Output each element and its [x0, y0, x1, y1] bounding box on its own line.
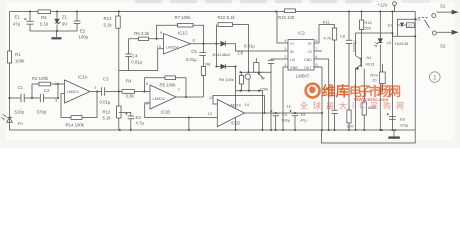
svg-text:0.01μ: 0.01μ [186, 57, 197, 62]
svg-text:E5: E5 [301, 112, 306, 117]
svg-text:13: 13 [209, 95, 214, 100]
svg-text:R5 100k: R5 100k [160, 83, 177, 88]
svg-text:4.7μ: 4.7μ [136, 121, 145, 126]
svg-text:维库: 维库 [322, 83, 350, 99]
svg-text:R9 100k: R9 100k [219, 77, 234, 82]
svg-text:E1: E1 [15, 15, 21, 20]
svg-text:14: 14 [245, 102, 250, 107]
svg-text:D3: D3 [388, 23, 393, 28]
svg-text:E3: E3 [136, 115, 142, 120]
svg-text:4700μ: 4700μ [352, 40, 357, 52]
svg-text:C1: C1 [18, 85, 24, 90]
svg-text:LIV: LIV [290, 58, 296, 62]
svg-text:RI: RI [308, 42, 312, 46]
svg-text:3.3k: 3.3k [126, 94, 135, 99]
svg-text:C6: C6 [238, 51, 244, 56]
svg-text:5: 5 [316, 63, 318, 67]
svg-text:LM567: LM567 [296, 74, 310, 79]
svg-text:OUT: OUT [304, 66, 312, 70]
svg-text:5.1k: 5.1k [40, 22, 49, 27]
svg-text:2: 2 [285, 55, 287, 59]
svg-text:220k: 220k [260, 86, 269, 91]
svg-text:IC1C: IC1C [178, 31, 188, 36]
svg-text:9013: 9013 [366, 62, 376, 67]
svg-text:220μ: 220μ [400, 123, 409, 128]
svg-text:R16: R16 [365, 20, 372, 25]
svg-text:C4: C4 [132, 53, 138, 58]
svg-text:R4: R4 [126, 79, 132, 84]
svg-text:0.01μ: 0.01μ [100, 100, 111, 105]
svg-text:R10 5.1k: R10 5.1k [218, 15, 236, 20]
svg-text:R12: R12 [103, 110, 111, 115]
svg-text:DL: DL [416, 17, 421, 21]
svg-text:E4: E4 [282, 112, 288, 117]
svg-text:+12V: +12V [378, 2, 388, 7]
svg-text:S1: S1 [440, 4, 446, 9]
svg-text:C5: C5 [191, 49, 197, 54]
svg-text:R2 100k: R2 100k [32, 76, 49, 81]
svg-text:N1: N1 [367, 55, 373, 60]
svg-text:1: 1 [285, 63, 287, 67]
svg-text:R8: R8 [205, 61, 211, 66]
svg-text:E8: E8 [400, 117, 405, 122]
svg-text:R11: R11 [323, 20, 331, 25]
svg-text:GND: GND [304, 58, 312, 62]
svg-text:370p: 370p [37, 110, 47, 115]
svg-text:LM324: LM324 [153, 96, 166, 101]
svg-text:C8: C8 [340, 34, 345, 39]
svg-text:LM324: LM324 [229, 103, 242, 108]
svg-text:100μ: 100μ [79, 35, 89, 40]
svg-text:7: 7 [316, 47, 318, 51]
svg-text:R15 100: R15 100 [278, 15, 295, 20]
svg-text:6: 6 [316, 55, 318, 59]
svg-text:4: 4 [285, 39, 287, 43]
svg-text:510p: 510p [15, 110, 25, 115]
svg-text:R14 100k: R14 100k [66, 123, 85, 128]
svg-text:W: W [261, 77, 265, 81]
svg-text:1N4148: 1N4148 [395, 41, 409, 46]
svg-text:S2: S2 [440, 44, 446, 49]
svg-text:IC1A: IC1A [78, 75, 88, 80]
svg-text:10: 10 [157, 44, 162, 49]
svg-text:4.7k: 4.7k [324, 36, 332, 41]
svg-text:3: 3 [285, 47, 287, 51]
svg-text:C2: C2 [44, 88, 50, 93]
svg-text:9V: 9V [62, 22, 67, 27]
svg-text:OI: OI [308, 50, 312, 54]
svg-text:47μ: 47μ [300, 118, 307, 123]
svg-text:1k: 1k [287, 104, 291, 109]
svg-text:Z1: Z1 [62, 15, 68, 20]
svg-text:100μ: 100μ [281, 118, 290, 123]
svg-text:PH: PH [18, 121, 24, 126]
svg-text:820: 820 [347, 124, 354, 129]
svg-text:LM324: LM324 [67, 89, 80, 94]
svg-text:E2: E2 [80, 29, 86, 34]
svg-text:12V: 12V [407, 24, 412, 28]
svg-text:LM324: LM324 [166, 45, 179, 50]
svg-text:100k: 100k [15, 59, 25, 64]
svg-text:R1: R1 [15, 52, 21, 57]
svg-text:C3: C3 [103, 77, 109, 82]
svg-text:R7 100k: R7 100k [175, 15, 192, 20]
svg-text:8: 8 [316, 39, 318, 43]
svg-text:GNB: GNB [290, 66, 298, 70]
svg-text:IC1D: IC1D [231, 121, 241, 126]
svg-text:R6 3.3k: R6 3.3k [134, 31, 150, 36]
svg-text:IC2: IC2 [298, 31, 305, 36]
svg-text:5.1k: 5.1k [103, 116, 112, 121]
svg-text:12: 12 [208, 111, 213, 116]
svg-text:L5: L5 [387, 40, 391, 45]
svg-text:47μ: 47μ [13, 22, 21, 27]
svg-text:1N4148x2: 1N4148x2 [212, 52, 231, 57]
svg-text:0.01μ: 0.01μ [131, 60, 142, 65]
svg-text:V+: V+ [290, 42, 294, 46]
svg-text:0.01μ: 0.01μ [244, 44, 255, 49]
svg-text:IN: IN [290, 50, 294, 54]
svg-text:R3: R3 [41, 15, 47, 20]
svg-text:500: 500 [365, 26, 372, 31]
svg-text:IC1B: IC1B [161, 110, 171, 115]
svg-text:5.1k: 5.1k [104, 23, 113, 28]
svg-text:全球最大IC采购网: 全球最大IC采购网 [300, 101, 409, 111]
svg-text:1: 1 [433, 74, 437, 81]
svg-text:R13: R13 [104, 16, 112, 21]
